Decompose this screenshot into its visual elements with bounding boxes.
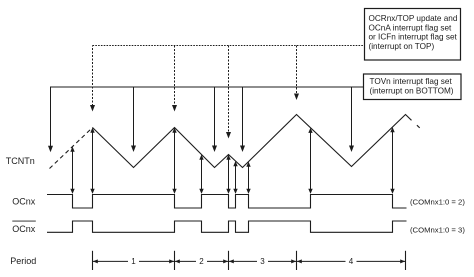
box U1: OCRnx/TOP update note bbox=[365, 9, 461, 61]
wire: dashed TOP-update bus line bbox=[92, 46, 94, 107]
arrow: solid BOTTOM marker at valley 3 bbox=[240, 87, 245, 152]
svg-text:3: 3 bbox=[260, 257, 265, 266]
svg-text:(interrupt on BOTTOM): (interrupt on BOTTOM) bbox=[370, 86, 454, 95]
arrow: dashed TOP marker at small peak 3 bbox=[226, 46, 231, 139]
svg-text:TCNTn: TCNTn bbox=[6, 156, 35, 166]
box U2: TOVn interrupt note bbox=[364, 74, 462, 100]
connector arrow: up-slope match x=248.5 bbox=[246, 162, 250, 194]
waveform: TCNTn dashed initial rise bbox=[50, 128, 93, 169]
axis: period span 1 bbox=[93, 257, 175, 266]
waveform: OCnx output (COMnx1:0 = 2) bbox=[47, 195, 407, 209]
arrow: dashed TOP marker at peak 4 bbox=[294, 46, 299, 101]
arrow: dashed TOP marker at peak 1 bbox=[90, 105, 95, 112]
axis: period tick 1 bbox=[92, 251, 94, 270]
svg-text:Period: Period bbox=[10, 256, 36, 266]
connector arrow: small down-slope match x=235.5 bbox=[233, 161, 237, 194]
arrow: solid BOTTOM marker at valley 2 bbox=[212, 87, 217, 152]
arrow: solid BOTTOM marker at valley 4 bbox=[349, 87, 354, 152]
label OCnx inverted with overline bbox=[12, 221, 36, 234]
svg-text:or ICFn interrupt flag set: or ICFn interrupt flag set bbox=[369, 33, 458, 42]
connector arrow: peak 1 to OCnx edge x=92.5 bbox=[90, 128, 94, 194]
svg-text:(COMnx1:0 = 3): (COMnx1:0 = 3) bbox=[410, 225, 465, 234]
connector arrow: up-slope match right x=392.5 bbox=[390, 127, 394, 194]
arrow: solid BOTTOM marker at valley 1 bbox=[131, 87, 136, 152]
connector arrow: small peak to OCnx edge x=228.5 bbox=[226, 155, 230, 194]
axis: period tick 5 bbox=[405, 251, 407, 270]
svg-text:(COMnx1:0 = 2): (COMnx1:0 = 2) bbox=[410, 197, 465, 206]
waveform: TCNTn triangle wave bbox=[93, 115, 412, 168]
svg-text:(interrupt on TOP): (interrupt on TOP) bbox=[369, 42, 435, 51]
svg-text:1: 1 bbox=[131, 257, 136, 266]
svg-text:OCRnx/TOP update and: OCRnx/TOP update and bbox=[369, 14, 458, 23]
svg-text:OCnx: OCnx bbox=[12, 196, 36, 206]
svg-text:OCnx: OCnx bbox=[12, 224, 36, 234]
svg-text:TOVn interrupt flag set: TOVn interrupt flag set bbox=[370, 77, 453, 86]
connector arrow: compare match on dashed rise x=72.5 bbox=[70, 147, 74, 194]
svg-text:2: 2 bbox=[199, 257, 204, 266]
axis: period tick 4 bbox=[296, 251, 298, 270]
axis: period tick 3 bbox=[228, 251, 230, 270]
axis: period span 3 bbox=[229, 257, 297, 266]
axis: period span 4 bbox=[297, 257, 406, 266]
arrow: solid BOTTOM marker at start bbox=[48, 146, 53, 153]
arrow: dashed TOP marker at peak 2 bbox=[172, 46, 177, 112]
wire: solid BOTTOM-interrupt bus line bbox=[51, 87, 364, 147]
svg-text:4: 4 bbox=[349, 257, 354, 266]
waveform: OCnx inverted output (COMnx1:0 = 3) bbox=[47, 221, 407, 232]
connector arrow: peak 2 to OCnx edge x=174.5 bbox=[172, 128, 176, 194]
axis: period tick 2 bbox=[174, 251, 176, 270]
svg-text:OCnA interrupt flag set: OCnA interrupt flag set bbox=[369, 23, 453, 32]
connector arrow: down-slope match x=201.5 bbox=[199, 155, 203, 194]
connector arrow: down-slope match right x=310.5 bbox=[308, 128, 312, 194]
waveform: TCNTn dashed trailing fall bbox=[417, 125, 420, 128]
axis: period span 2 bbox=[175, 257, 229, 266]
